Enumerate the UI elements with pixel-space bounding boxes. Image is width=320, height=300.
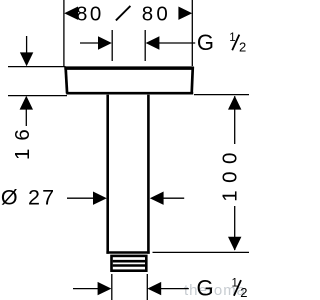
- svg-text:100: 100: [219, 145, 242, 202]
- svg-text:G: G: [197, 30, 214, 55]
- svg-text:Ø 27: Ø 27: [1, 185, 56, 209]
- svg-text:G: G: [197, 276, 214, 300]
- svg-text:16: 16: [11, 121, 34, 160]
- svg-text:80: 80: [142, 2, 171, 25]
- svg-text:80: 80: [76, 2, 104, 25]
- svg-text:1: 1: [229, 32, 235, 44]
- svg-text:2: 2: [239, 39, 246, 54]
- svg-text:2: 2: [240, 285, 247, 300]
